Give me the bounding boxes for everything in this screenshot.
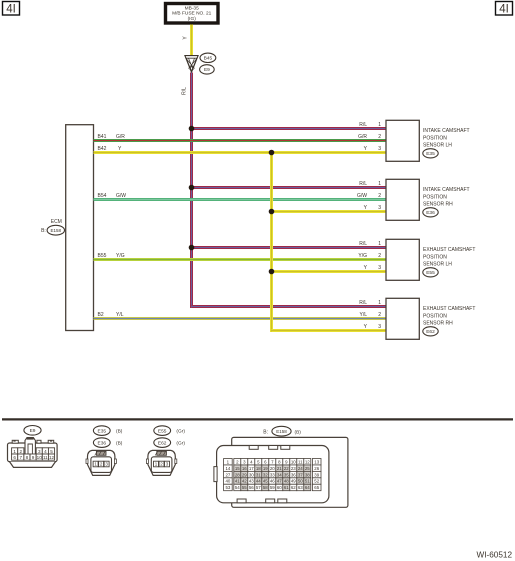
svg-text:POSITION: POSITION	[423, 254, 447, 260]
svg-text:POSITION: POSITION	[423, 194, 447, 200]
svg-text:18: 18	[256, 466, 261, 471]
svg-text:29: 29	[242, 472, 247, 477]
svg-text:E158: E158	[51, 228, 62, 233]
svg-text:31: 31	[256, 472, 261, 477]
svg-text:R/L: R/L	[359, 181, 367, 187]
svg-text:39: 39	[314, 472, 319, 477]
node R/L junction 1	[189, 126, 195, 132]
svg-text:62: 62	[291, 485, 296, 490]
svg-text:11: 11	[298, 459, 303, 464]
svg-text:21: 21	[277, 466, 282, 471]
svg-text:54: 54	[235, 485, 240, 490]
svg-text:3: 3	[38, 449, 41, 454]
svg-text:SENSOR RH: SENSOR RH	[423, 202, 453, 208]
svg-text:R/L: R/L	[359, 122, 367, 128]
separator line	[2, 418, 513, 420]
svg-text:Y/L: Y/L	[116, 312, 124, 318]
wire Y branch to sensor 4 pin 3	[272, 329, 387, 332]
svg-text:(Gr): (Gr)	[176, 441, 185, 447]
svg-text:EXHAUST CAMSHAFT: EXHAUST CAMSHAFT	[423, 247, 475, 253]
svg-text:11: 11	[43, 455, 48, 460]
svg-text:41: 41	[235, 479, 240, 484]
connector view E9 (12-pin)	[8, 437, 58, 467]
connector symbol (triangle) B45/E9	[185, 56, 198, 73]
wire Y vertical trunk	[270, 153, 273, 333]
svg-text:35: 35	[284, 472, 289, 477]
pin label G/R / 2 of sensor 1	[358, 134, 381, 140]
svg-text:3: 3	[378, 324, 381, 330]
svg-text:WI-60512: WI-60512	[477, 551, 513, 560]
svg-text:28: 28	[235, 472, 240, 477]
connector view B: E158 oval label	[263, 426, 301, 436]
svg-text:20: 20	[270, 466, 275, 471]
svg-text:B55: B55	[98, 253, 107, 259]
node R/L junction 2	[189, 185, 195, 191]
connector view E62 oval label	[154, 438, 186, 448]
svg-text:G/R: G/R	[116, 134, 125, 140]
svg-text:34: 34	[277, 472, 282, 477]
svg-text:25: 25	[305, 466, 310, 471]
svg-text:19: 19	[263, 466, 268, 471]
svg-text:(B): (B)	[116, 429, 123, 435]
connector view E36 oval label	[93, 438, 122, 448]
svg-text:4I: 4I	[499, 4, 509, 16]
svg-text:E36: E36	[426, 210, 435, 216]
svg-text:48: 48	[284, 479, 289, 484]
pin label Y / 3 of sensor 3	[364, 265, 382, 271]
svg-text:50: 50	[298, 479, 303, 484]
pin label Y / 3 of sensor 4	[364, 324, 382, 330]
wire R/L branch to sensor 2 pin 1	[192, 186, 387, 189]
svg-text:Y/G: Y/G	[116, 253, 125, 259]
svg-text:B42: B42	[98, 146, 107, 152]
svg-text:26: 26	[314, 466, 319, 471]
svg-text:(B): (B)	[295, 429, 302, 435]
svg-text:58: 58	[263, 485, 268, 490]
connector view E9 oval label	[24, 426, 41, 436]
svg-text:R/L: R/L	[359, 300, 367, 306]
svg-text:3: 3	[378, 205, 381, 211]
svg-text:POSITION: POSITION	[423, 313, 447, 319]
svg-text:60: 60	[277, 485, 282, 490]
svg-text:30: 30	[249, 472, 254, 477]
svg-text:B45: B45	[204, 56, 213, 62]
svg-text:17: 17	[249, 466, 254, 471]
svg-text:B2: B2	[98, 312, 104, 318]
wire Y/G from ECM B55 to exhaust camshaft sensor LH pin 2	[94, 258, 387, 261]
svg-text:R/L: R/L	[359, 241, 367, 247]
svg-text:Y/L: Y/L	[359, 312, 367, 318]
svg-text:42: 42	[242, 479, 247, 484]
svg-text:SENSOR LH: SENSOR LH	[423, 143, 452, 149]
connector view E35/E36 (3-pin)	[86, 450, 116, 475]
svg-text:4I: 4I	[6, 4, 16, 16]
pin label B2 / Y/L	[98, 312, 124, 318]
svg-text:E158: E158	[276, 429, 287, 434]
svg-text:MB-35: MB-35	[185, 5, 199, 11]
svg-text:1: 1	[378, 300, 381, 306]
svg-text:2: 2	[20, 449, 23, 454]
svg-text:3: 3	[378, 265, 381, 271]
svg-text:SENSOR LH: SENSOR LH	[423, 262, 452, 268]
svg-text:55: 55	[242, 485, 247, 490]
svg-text:32: 32	[263, 472, 268, 477]
svg-text:33: 33	[270, 472, 275, 477]
pin label B42 / Y	[98, 146, 123, 152]
svg-text:23: 23	[291, 466, 296, 471]
svg-text:M/B FUSE NO. 21: M/B FUSE NO. 21	[172, 11, 212, 17]
svg-text:1: 1	[378, 181, 381, 187]
svg-text:EXHAUST CAMSHAFT: EXHAUST CAMSHAFT	[423, 306, 475, 312]
svg-text:B41: B41	[98, 134, 107, 140]
figure number WI-60512	[477, 551, 513, 560]
label ECM	[51, 219, 62, 225]
svg-text:64: 64	[305, 485, 310, 490]
label R/L	[182, 87, 188, 95]
svg-text:(Gr): (Gr)	[176, 429, 185, 435]
svg-text:(B): (B)	[116, 441, 123, 447]
svg-text:INTAKE CAMSHAFT: INTAKE CAMSHAFT	[423, 187, 470, 193]
node Y junction 1	[269, 150, 275, 156]
svg-text:1: 1	[13, 449, 16, 454]
svg-text:36: 36	[291, 472, 296, 477]
svg-text:B54: B54	[98, 193, 107, 199]
wire Y from ECM B42 to intake camshaft sensor LH pin 3	[94, 151, 387, 154]
svg-text:G/R: G/R	[358, 134, 367, 140]
svg-text:13: 13	[314, 459, 319, 464]
connector oval E9	[200, 65, 215, 74]
svg-text:INTAKE CAMSHAFT: INTAKE CAMSHAFT	[423, 128, 470, 134]
node Y junction 3	[269, 269, 275, 275]
svg-text:12: 12	[305, 459, 310, 464]
pin label B41 / G/R	[98, 134, 126, 140]
pin label B54 / G/W	[98, 193, 127, 199]
svg-text:65: 65	[314, 485, 319, 490]
svg-text:G/W: G/W	[357, 193, 367, 199]
svg-text:1: 1	[378, 122, 381, 128]
svg-text:B:: B:	[41, 228, 46, 234]
svg-text:2: 2	[378, 134, 381, 140]
svg-text:46: 46	[270, 479, 275, 484]
svg-text:E55: E55	[426, 270, 435, 276]
svg-text:14: 14	[225, 466, 230, 471]
svg-text:Y/G: Y/G	[358, 253, 367, 259]
connector view E55/E62 (3-pin)	[146, 450, 176, 475]
wire R/L vertical trunk	[190, 72, 193, 308]
pin label G/W / 2 of sensor 2	[357, 193, 381, 199]
connector view E55 oval label	[154, 426, 186, 436]
svg-text:57: 57	[256, 485, 261, 490]
label Y	[183, 36, 189, 40]
svg-text:44: 44	[256, 479, 261, 484]
svg-text:15: 15	[235, 466, 240, 471]
node Y junction 2	[269, 209, 275, 215]
wire G/W from ECM B54 to intake camshaft sensor RH pin 2	[94, 198, 387, 201]
wire Y branch to sensor 3 pin 3	[272, 270, 387, 273]
svg-text:3: 3	[378, 146, 381, 152]
page marker 4I top-right	[496, 2, 513, 16]
wire R/L branch to sensor 1 pin 1	[192, 127, 387, 130]
pin label Y / 3 of sensor 1	[364, 146, 382, 152]
svg-text:E35: E35	[98, 428, 107, 434]
svg-text:POSITION: POSITION	[423, 135, 447, 141]
svg-text:4: 4	[44, 449, 47, 454]
svg-text:43: 43	[249, 479, 254, 484]
svg-text:R/L: R/L	[182, 87, 188, 95]
intake camshaft position sensor lh box (E35)	[386, 120, 470, 161]
svg-text:24: 24	[298, 466, 303, 471]
svg-text:E55: E55	[158, 428, 167, 434]
wire R/L branch to sensor 3 pin 1	[192, 246, 387, 249]
svg-text:59: 59	[270, 485, 275, 490]
svg-text:49: 49	[291, 479, 296, 484]
svg-text:B:: B:	[263, 429, 268, 435]
svg-text:51: 51	[305, 479, 310, 484]
svg-text:(IG): (IG)	[188, 16, 197, 22]
svg-text:6: 6	[13, 455, 16, 460]
svg-text:45: 45	[263, 479, 268, 484]
svg-text:10: 10	[291, 459, 296, 464]
svg-text:2: 2	[378, 193, 381, 199]
intake camshaft position sensor rh box (E36)	[386, 179, 470, 220]
wire Y branch to sensor 2 pin 3	[272, 210, 387, 213]
svg-text:E35: E35	[426, 151, 435, 157]
svg-text:Y: Y	[183, 36, 189, 40]
pin label R/L / 1 of sensor 2	[359, 181, 381, 187]
svg-text:38: 38	[305, 472, 310, 477]
pin label R/L / 1 of sensor 3	[359, 241, 381, 247]
svg-text:56: 56	[249, 485, 254, 490]
svg-text:40: 40	[225, 479, 230, 484]
svg-text:SENSOR RH: SENSOR RH	[423, 321, 453, 327]
svg-text:63: 63	[298, 485, 303, 490]
wire G/R from ECM B41 to intake camshaft sensor LH pin 2	[94, 139, 387, 142]
svg-text:5: 5	[50, 449, 53, 454]
svg-text:10: 10	[37, 455, 43, 460]
pin label Y / 3 of sensor 2	[364, 205, 382, 211]
node R/L junction 3	[189, 245, 195, 251]
svg-text:E62: E62	[158, 440, 167, 446]
svg-text:53: 53	[225, 485, 230, 490]
connector view E158 (65-pin ECM connector)	[214, 437, 348, 507]
svg-text:E9: E9	[30, 428, 36, 434]
ECM box	[66, 125, 94, 331]
svg-text:ECM: ECM	[51, 219, 62, 225]
svg-text:9: 9	[32, 455, 35, 460]
svg-text:E36: E36	[98, 440, 107, 446]
pin label B55 / Y/G	[98, 253, 125, 259]
pin label Y/G / 2 of sensor 3	[358, 253, 381, 259]
pin label Y/L / 2 of sensor 4	[359, 312, 381, 318]
wire R/L branch to sensor 4 pin 1	[192, 305, 387, 308]
svg-text:1: 1	[378, 241, 381, 247]
exhaust camshaft position sensor rh box (E62)	[386, 298, 475, 339]
svg-text:8: 8	[26, 455, 29, 460]
page marker 4I top-left	[3, 2, 20, 16]
svg-text:E9: E9	[204, 67, 210, 73]
svg-text:2: 2	[378, 312, 381, 318]
svg-text:61: 61	[284, 485, 289, 490]
ECM connector oval B: E158	[41, 225, 64, 235]
exhaust camshaft position sensor lh box (E55)	[386, 239, 475, 280]
svg-text:12: 12	[49, 455, 55, 460]
svg-text:52: 52	[314, 479, 319, 484]
svg-text:7: 7	[20, 455, 23, 460]
wire Y from fuse box down to connector B45/E9	[190, 25, 193, 56]
pin label R/L / 1 of sensor 1	[359, 122, 381, 128]
svg-text:E62: E62	[426, 329, 435, 335]
svg-text:47: 47	[277, 479, 282, 484]
connector view E35 oval label	[93, 426, 122, 436]
fuse box MB-35 M/B FUSE NO. 21 (IG)	[166, 4, 219, 24]
svg-text:27: 27	[225, 472, 230, 477]
svg-text:16: 16	[242, 466, 247, 471]
svg-text:2: 2	[378, 253, 381, 259]
svg-text:22: 22	[284, 466, 289, 471]
connector oval B45	[200, 53, 216, 62]
svg-text:37: 37	[298, 472, 303, 477]
pin label R/L / 1 of sensor 4	[359, 300, 381, 306]
svg-text:G/W: G/W	[116, 193, 126, 199]
wire Y/L from ECM B2 to exhaust camshaft sensor RH pin 2	[94, 317, 387, 320]
